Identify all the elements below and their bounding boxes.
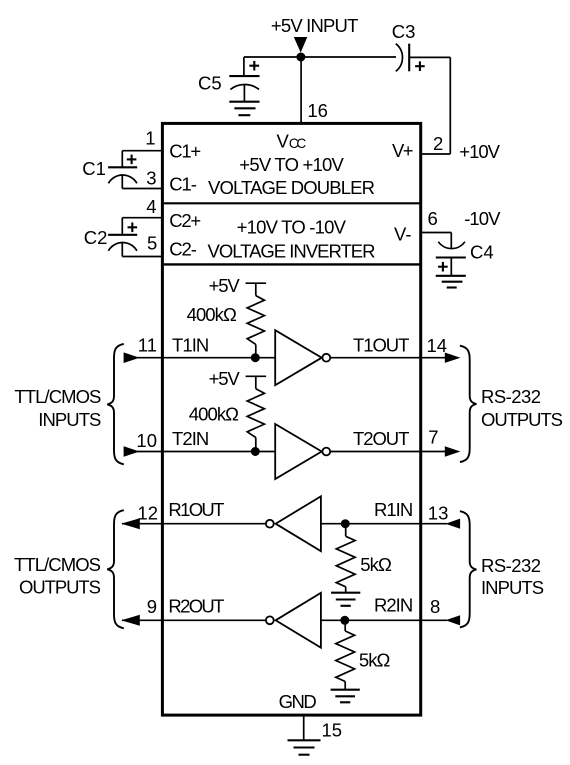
- capacitor C2: [108, 218, 137, 257]
- RS-232 OUTPUTS label: [481, 386, 563, 430]
- op T2 inverter: [275, 424, 330, 479]
- ground under R2 5k: [331, 690, 360, 703]
- brace RS-232 inputs: [460, 511, 477, 627]
- GND pin label: [279, 691, 317, 712]
- svg-text:+5V: +5V: [209, 275, 241, 296]
- svg-text:3: 3: [146, 168, 156, 189]
- ground under C5: [229, 102, 259, 116]
- U1 section divider 1: [164, 202, 421, 204]
- pin C2+ label: [169, 210, 201, 231]
- RS-232 INPUTS label: [481, 555, 544, 598]
- wire +5V rail horizontal: [244, 56, 396, 58]
- brace RS-232 outputs: [460, 346, 477, 462]
- C2 label: [84, 227, 108, 248]
- svg-text:10: 10: [136, 430, 157, 451]
- svg-text:T1OUT: T1OUT: [353, 335, 409, 356]
- T1OUT label: [353, 335, 409, 356]
- T2OUT label: [353, 428, 409, 449]
- ground under R1 5k: [331, 593, 360, 606]
- wire T2IN: [124, 451, 275, 453]
- node +5V INPUT label: [271, 15, 359, 36]
- wire corner down to pin2: [449, 57, 451, 154]
- pin 14 label: [427, 335, 448, 356]
- arrow pin 7: [445, 446, 461, 456]
- wire T1IN: [124, 357, 275, 359]
- IC U1 outline (MAX232): [162, 123, 420, 715]
- wire R1IN: [321, 523, 447, 525]
- pin 7 label: [428, 427, 438, 448]
- C1 label: [82, 158, 106, 179]
- svg-text:C3: C3: [392, 21, 416, 42]
- resistor R2 5k: [336, 620, 355, 689]
- svg-text:OUTPUTS: OUTPUTS: [19, 577, 101, 598]
- capacitor C4: [436, 233, 466, 276]
- svg-text:+10V: +10V: [459, 141, 500, 162]
- svg-text:T2IN: T2IN: [172, 428, 209, 449]
- wire T1OUT: [330, 357, 447, 359]
- pin 5 label: [147, 233, 157, 254]
- resistor R1 5k: [336, 524, 355, 593]
- svg-text:400kΩ: 400kΩ: [189, 404, 239, 425]
- svg-text:1: 1: [145, 128, 155, 149]
- svg-text:RS-232: RS-232: [481, 386, 541, 407]
- svg-text:9: 9: [147, 596, 157, 617]
- svg-text:GND: GND: [279, 691, 317, 712]
- svg-text:R1OUT: R1OUT: [168, 499, 224, 520]
- arrow into +5V node: [294, 37, 308, 53]
- brace TTL/CMOS inputs: [107, 344, 124, 464]
- R2IN label: [374, 595, 413, 616]
- T2IN label: [172, 428, 209, 449]
- svg-text:2: 2: [433, 133, 443, 154]
- junction dot +5V node: [296, 53, 305, 62]
- arrow pin 12: [121, 518, 140, 529]
- 5k label R1: [360, 554, 392, 575]
- svg-text:C1+: C1+: [169, 141, 201, 162]
- svg-text:R1IN: R1IN: [374, 499, 413, 520]
- svg-text:C1-: C1-: [169, 173, 197, 194]
- 400k label T1: [187, 304, 237, 325]
- svg-text:V-: V-: [394, 223, 411, 244]
- pin V+ label: [392, 140, 414, 161]
- svg-text:R2OUT: R2OUT: [168, 596, 224, 617]
- svg-text:INPUTS: INPUTS: [38, 409, 101, 430]
- inverter title line 2: [208, 241, 376, 262]
- brace TTL/CMOS outputs: [107, 510, 124, 628]
- pin 11 label: [138, 335, 157, 356]
- TTL/CMOS OUTPUTS label: [14, 554, 101, 598]
- svg-text:13: 13: [428, 502, 449, 523]
- svg-text:TTL/CMOS: TTL/CMOS: [14, 386, 101, 407]
- capacitor C5: [229, 61, 259, 102]
- svg-text:5kΩ: 5kΩ: [360, 554, 392, 575]
- +5V supply label T1: [209, 275, 241, 296]
- R1OUT label: [168, 499, 224, 520]
- pin 4 label: [146, 196, 156, 217]
- junction dot T1IN: [251, 353, 260, 362]
- T1IN label: [172, 335, 209, 356]
- svg-text:400kΩ: 400kΩ: [187, 304, 237, 325]
- op T1 inverter: [275, 330, 330, 385]
- pin 12 label: [137, 503, 158, 524]
- svg-text:+5V TO +10V: +5V TO +10V: [239, 154, 344, 175]
- pin C1- label: [169, 173, 197, 194]
- svg-text:6: 6: [428, 208, 438, 229]
- node +10V label: [459, 141, 500, 162]
- C3 label: [392, 21, 416, 42]
- wire pin 16 vertical: [300, 57, 302, 123]
- junction dot R2IN: [340, 616, 349, 625]
- svg-text:OUTPUTS: OUTPUTS: [481, 409, 563, 430]
- svg-text:C2+: C2+: [169, 210, 201, 231]
- pin 1 label: [145, 128, 155, 149]
- R2OUT label: [168, 596, 224, 617]
- +5V supply bar T1: [246, 283, 267, 295]
- wire pin 15: [303, 715, 305, 740]
- 5k label R2: [359, 650, 391, 671]
- svg-text:C2: C2: [84, 227, 108, 248]
- op R2 receiver: [266, 593, 321, 648]
- pin 16 label: [307, 100, 328, 121]
- svg-text:+5V: +5V: [209, 368, 241, 389]
- 400k label T2: [189, 404, 239, 425]
- pin 8 label: [430, 596, 440, 617]
- arrow pin 11: [124, 352, 140, 363]
- doubler title line 2: [208, 177, 375, 198]
- wire T2OUT: [330, 451, 447, 453]
- junction dot R1IN: [341, 519, 350, 528]
- svg-text:5kΩ: 5kΩ: [359, 650, 391, 671]
- junction dot T2IN: [251, 447, 260, 456]
- svg-text:5: 5: [147, 233, 157, 254]
- svg-text:+5V INPUT: +5V INPUT: [271, 15, 359, 36]
- arrow pin 14: [445, 353, 461, 363]
- pin 1 stub: [122, 150, 163, 152]
- pin 6 stub: [421, 232, 451, 234]
- svg-text:VOLTAGE INVERTER: VOLTAGE INVERTER: [208, 241, 376, 262]
- wire R2IN: [321, 619, 447, 621]
- capacitor C3: [396, 44, 425, 72]
- svg-text:C1: C1: [82, 158, 106, 179]
- svg-text:TTL/CMOS: TTL/CMOS: [14, 554, 101, 575]
- wire pin 2 stub: [421, 153, 450, 155]
- pin C1+ label: [169, 141, 201, 162]
- arrow pin 10: [124, 446, 140, 457]
- arrow pin 13: [446, 519, 461, 529]
- svg-text:4: 4: [146, 196, 156, 217]
- pin 9 label: [147, 596, 157, 617]
- svg-text:C4: C4: [470, 241, 494, 262]
- svg-text:8: 8: [430, 596, 440, 617]
- pin 3 stub: [122, 188, 163, 190]
- svg-text:T2OUT: T2OUT: [353, 428, 409, 449]
- svg-text:C5: C5: [198, 73, 222, 94]
- svg-text:11: 11: [138, 335, 157, 356]
- wire C5 lead down: [243, 57, 245, 76]
- svg-text:INPUTS: INPUTS: [481, 577, 544, 598]
- arrow pin 8: [446, 615, 461, 625]
- C5 label: [198, 73, 222, 94]
- svg-text:T1IN: T1IN: [172, 335, 209, 356]
- wire C3 to corner: [409, 56, 450, 58]
- TTL/CMOS INPUTS label: [14, 386, 101, 430]
- svg-text:C2-: C2-: [169, 238, 197, 259]
- wire R2OUT: [122, 619, 266, 621]
- R1IN label: [374, 499, 413, 520]
- svg-text:-10V: -10V: [464, 208, 501, 229]
- node -10V label: [464, 208, 501, 229]
- pin 5 stub: [122, 256, 163, 258]
- doubler title line 1: [239, 154, 344, 175]
- capacitor C1: [108, 151, 137, 189]
- resistor R-T2 400k zigzag: [247, 389, 264, 452]
- inverter title line 1: [237, 216, 347, 237]
- pin 2 label: [433, 133, 443, 154]
- svg-text:16: 16: [307, 100, 328, 121]
- op R1 receiver: [266, 496, 321, 551]
- pin V- label: [394, 223, 411, 244]
- svg-text:VOLTAGE DOUBLER: VOLTAGE DOUBLER: [208, 177, 375, 198]
- pin 13 label: [428, 502, 449, 523]
- pin 15 label: [322, 720, 343, 741]
- pin 3 label: [146, 168, 156, 189]
- +5V supply label T2: [209, 368, 241, 389]
- wire R1OUT: [122, 523, 266, 525]
- pin 4 stub: [122, 217, 163, 219]
- arrow pin 9: [121, 615, 140, 626]
- pin 10 label: [136, 430, 157, 451]
- C4 label: [470, 241, 494, 262]
- svg-text:RS-232: RS-232: [481, 555, 541, 576]
- pin C2- label: [169, 238, 197, 259]
- +5V supply bar T2: [246, 376, 267, 388]
- svg-text:14: 14: [427, 335, 448, 356]
- svg-text:12: 12: [137, 503, 158, 524]
- svg-text:V+: V+: [392, 140, 414, 161]
- svg-text:7: 7: [428, 427, 438, 448]
- U1 section divider 2: [164, 263, 421, 265]
- svg-text:R2IN: R2IN: [374, 595, 413, 616]
- svg-text:+10V TO -10V: +10V TO -10V: [237, 216, 347, 237]
- resistor R-T1 400k zigzag: [247, 296, 264, 358]
- Vcc label: [277, 130, 307, 151]
- svg-text:15: 15: [322, 720, 343, 741]
- pin 6 label: [428, 208, 438, 229]
- ground under C4: [436, 276, 466, 288]
- ground pin 15: [288, 740, 321, 754]
